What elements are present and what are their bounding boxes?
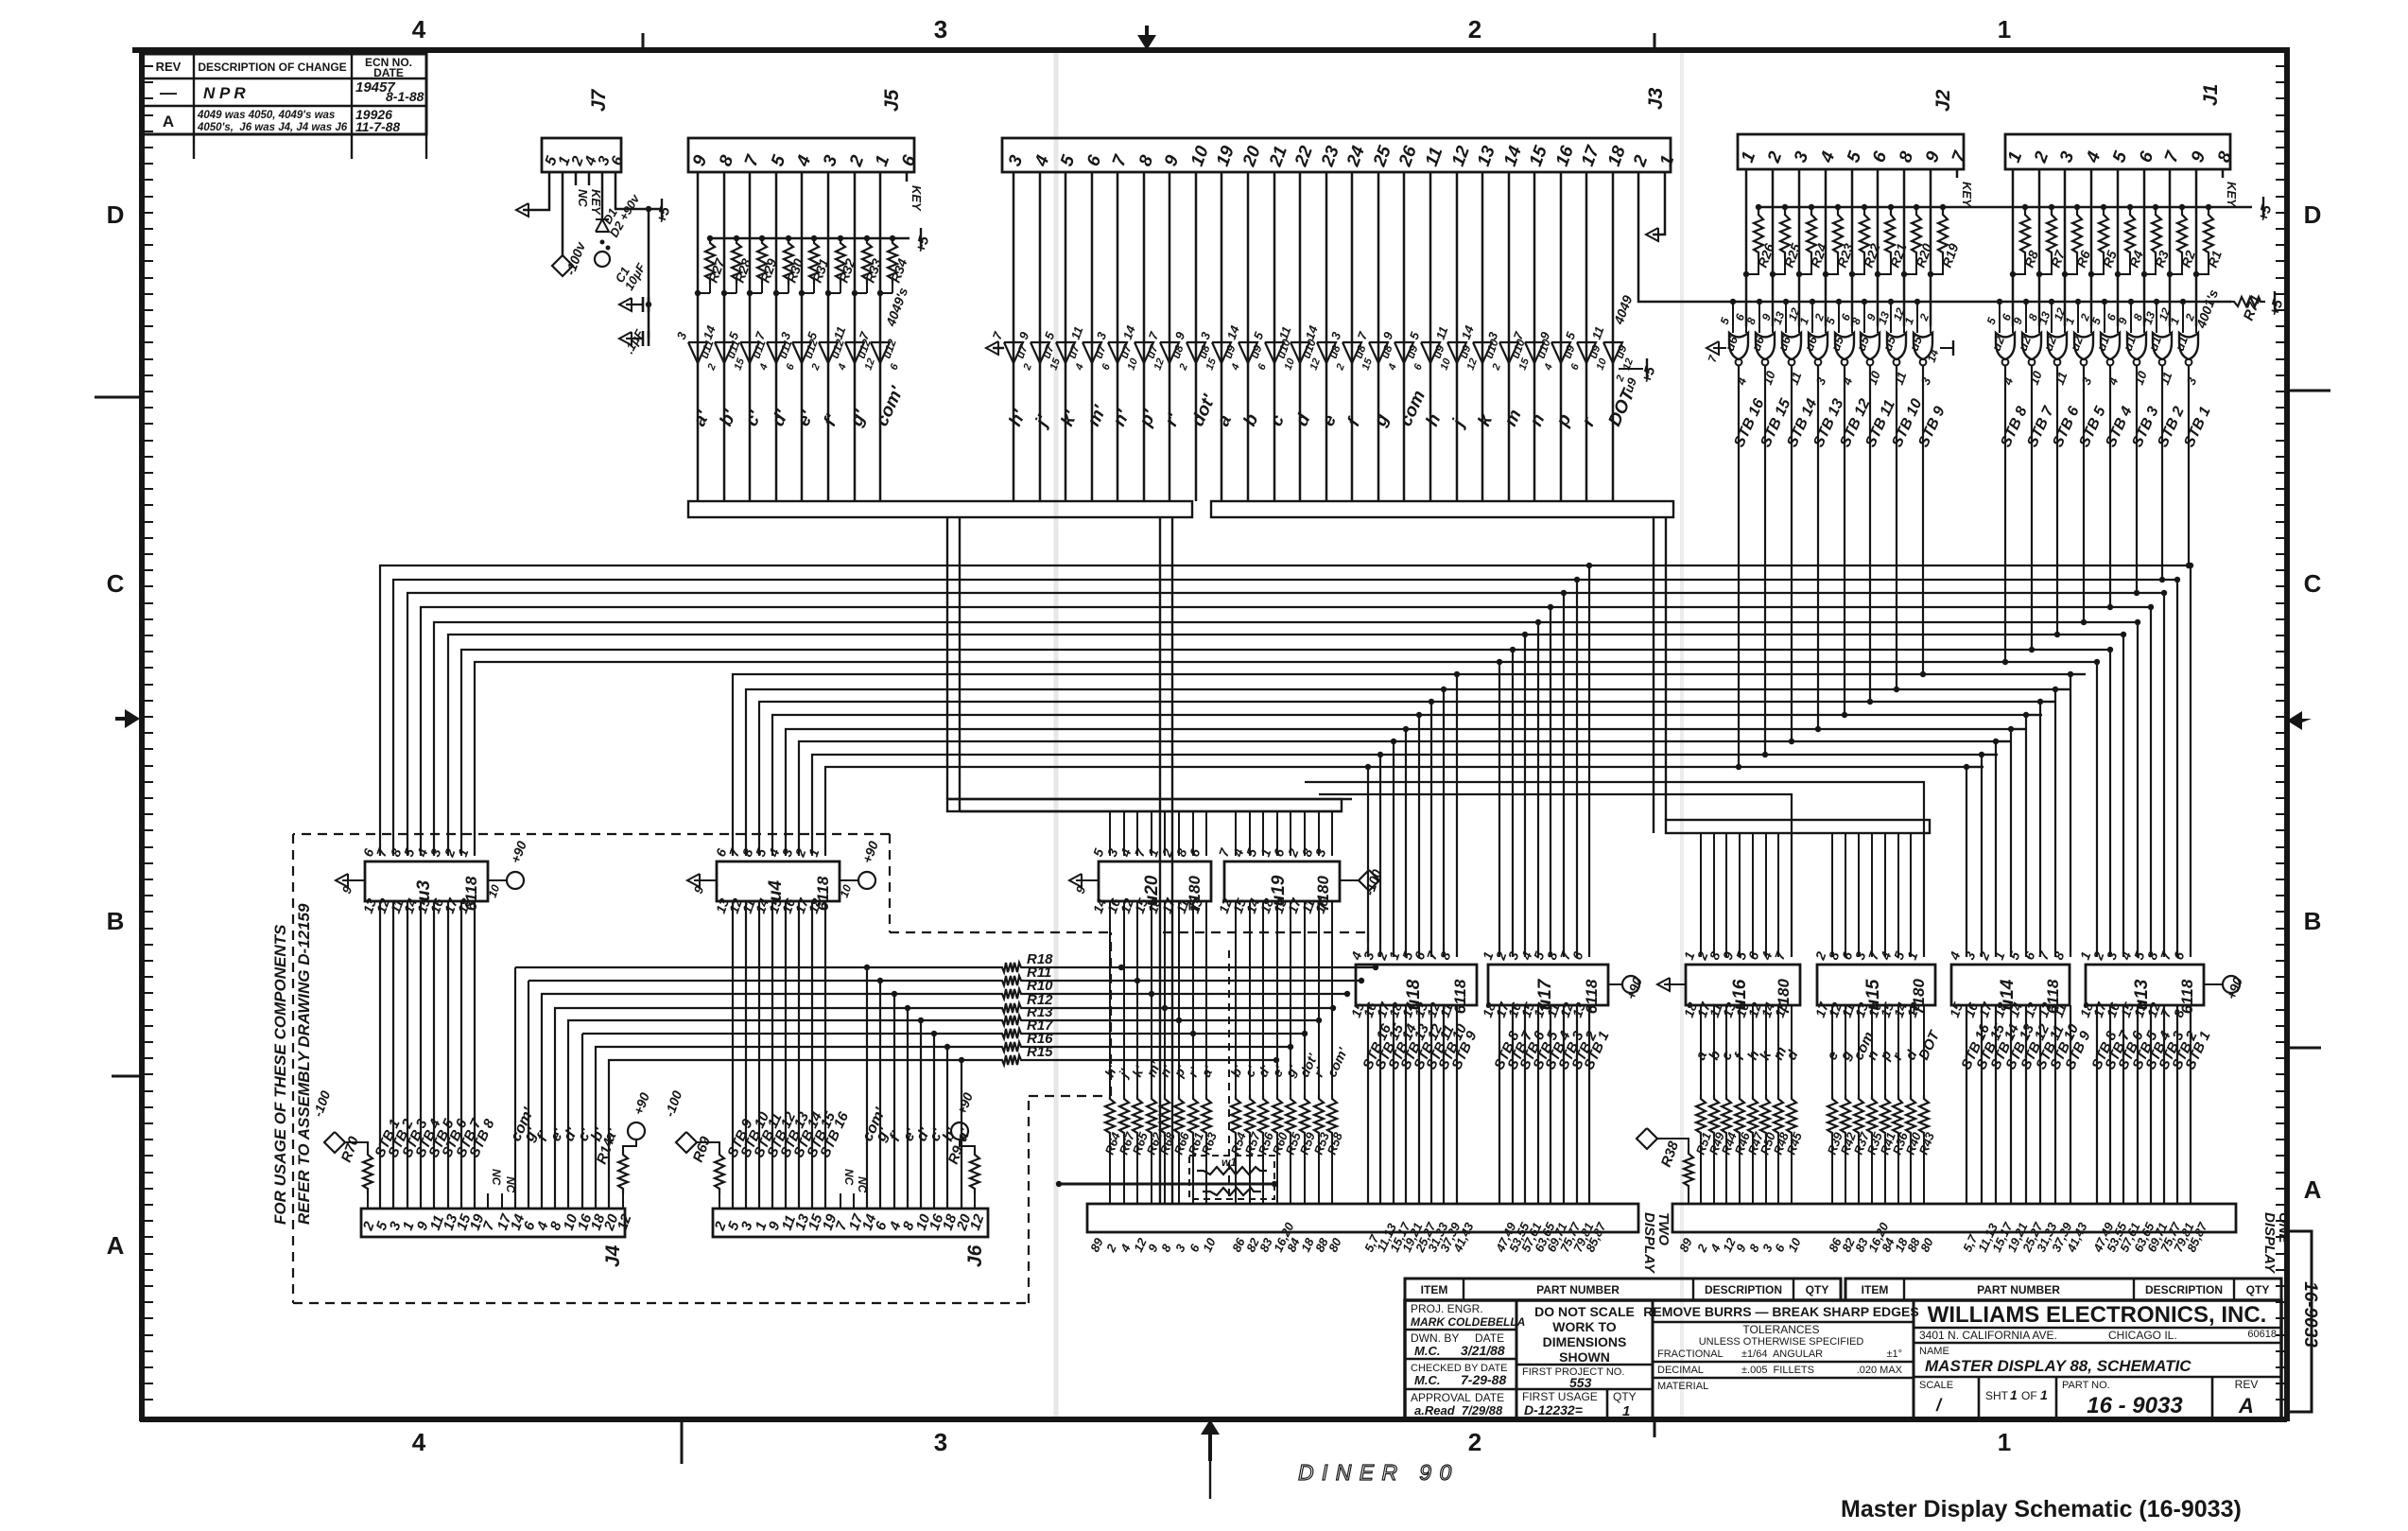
svg-text:16 - 9033: 16 - 9033 (2087, 1393, 2183, 1418)
svg-text:DESCRIPTION OF CHANGE: DESCRIPTION OF CHANGE (198, 61, 346, 74)
svg-text:1: 1 (2040, 1387, 2048, 1402)
svg-text:D: D (107, 200, 125, 229)
revision table (143, 54, 426, 134)
svg-text:C: C (107, 569, 125, 598)
svg-text:C: C (2304, 569, 2322, 598)
inverter gates U11/U12 (4049) (688, 342, 707, 363)
parts list header left (1405, 1279, 1841, 1300)
zone boundary arrow bottom 3/2 (1201, 1419, 1220, 1461)
svg-text:ITEM: ITEM (1421, 1283, 1448, 1296)
bus line 17 to U15 com (1305, 782, 1924, 957)
wires U17 to DISPLAY TWO (1499, 1005, 1500, 1204)
svg-text:1: 1 (1998, 1428, 2011, 1456)
bus line extensions right for U14 (2070, 673, 2086, 675)
junction dots U20/U19 wires on bus (1118, 965, 1124, 970)
svg-text:3: 3 (934, 15, 947, 43)
connector DISPLAY TWO (1087, 1204, 1638, 1232)
diode D1 (596, 218, 609, 220)
svg-text:NC: NC (576, 189, 590, 207)
svg-text:4: 4 (412, 1428, 426, 1456)
svg-text:1: 1 (2010, 1387, 2018, 1402)
svg-text:11-7-88: 11-7-88 (355, 119, 400, 134)
J4 NC pins (487, 1193, 489, 1209)
+5 rail for pullup resistors (1758, 206, 2252, 209)
svg-text:DESCRIPTION: DESCRIPTION (1705, 1283, 1782, 1296)
-100v diamond (552, 255, 573, 276)
resistor bank R64-R58 (1105, 1095, 1115, 1137)
svg-text:NC: NC (504, 1176, 517, 1193)
svg-text:J1: J1 (2200, 84, 2222, 106)
svg-text:DATE: DATE (373, 66, 404, 79)
svg-text:J5: J5 (881, 89, 903, 112)
svg-text:4049 was 4050, 4049's was: 4049 was 4050, 4049's was (197, 110, 335, 121)
wires J2 pins down (1745, 169, 1748, 326)
wires U14 to DISPLAY ONE (1966, 1005, 1967, 1204)
svg-text:PROJ. ENGR.: PROJ. ENGR. (1411, 1302, 1483, 1315)
resistors R26-R19 (1756, 204, 1761, 210)
svg-text:NC: NC (490, 1169, 503, 1186)
svg-text:DWN. BY: DWN. BY (1411, 1331, 1459, 1345)
svg-text:DISPLAY: DISPLAY (2261, 1212, 2278, 1275)
svg-text:DISPLAY: DISPLAY (1641, 1212, 1657, 1275)
zone boundary arrow left C/B (115, 709, 140, 728)
svg-text:±1°: ±1° (1886, 1348, 1902, 1360)
first usage row (1516, 1388, 1653, 1391)
svg-text:1: 1 (1622, 1403, 1630, 1419)
svg-text:REFER TO ASSEMBLY DRAWING D-12: REFER TO ASSEMBLY DRAWING D-12159 (295, 903, 313, 1225)
drawing frame border (132, 47, 2287, 53)
svg-text:4050's, J6 was J4, J4 was J6: 4050's, J6 was J4, J4 was J6 (197, 122, 348, 133)
connector J2 (1738, 134, 1964, 169)
wires U18 to DISPLAY TWO (1367, 1005, 1369, 1204)
stair-step wires down to U17 (1499, 662, 1500, 957)
ground arrow left of J3 gates (993, 347, 1004, 350)
svg-text:J7: J7 (588, 88, 610, 112)
connector DISPLAY ONE (1672, 1204, 2236, 1232)
svg-text:SHOWN: SHOWN (1559, 1349, 1610, 1365)
U19 -100 (1340, 879, 1359, 881)
dashed dot-prime wire (1228, 950, 1230, 1201)
jumper W1 dashed box (1189, 1156, 1274, 1199)
svg-text:6118: 6118 (2178, 979, 2196, 1014)
resistor R71 (2229, 297, 2265, 306)
wire J7 pin6 to +5 rail (615, 172, 662, 209)
svg-text:3401 N. CALIFORNIA AVE.: 3401 N. CALIFORNIA AVE. (1919, 1329, 2057, 1342)
zone boundary mark left B/A (112, 1075, 140, 1078)
svg-text:SCALE: SCALE (1919, 1380, 1953, 1391)
svg-text:CHICAGO IL.: CHICAGO IL. (2108, 1329, 2177, 1342)
svg-text:±1/64 ANGULAR: ±1/64 ANGULAR (1741, 1348, 1823, 1360)
wire J3 pin2 to +5 rail (1638, 172, 1654, 302)
svg-text:PART NO.: PART NO. (2062, 1380, 2110, 1391)
svg-text:A: A (163, 113, 174, 130)
svg-text:.020 MAX: .020 MAX (1857, 1365, 1903, 1376)
NOR gates U2/U1 (4001) (1997, 299, 2002, 304)
svg-text:M.C.: M.C. (1414, 1373, 1440, 1387)
svg-text:DIMENSIONS: DIMENSIONS (1543, 1334, 1627, 1349)
svg-text:N P R: N P R (203, 84, 246, 102)
+5 rail J5 resistors (710, 237, 895, 240)
svg-text:ONE: ONE (2276, 1212, 2292, 1244)
wire +5 rail down to caps (648, 209, 650, 339)
IC U16 7180 driver (1686, 965, 1800, 1005)
svg-text:DECIMAL: DECIMAL (1657, 1365, 1704, 1376)
svg-text:ITEM: ITEM (1862, 1283, 1889, 1296)
connector J7 (542, 138, 621, 172)
zone boundary mark bottom 4/3 (681, 1419, 684, 1464)
svg-text:DO NOT SCALE: DO NOT SCALE (1534, 1304, 1635, 1319)
svg-text:KEY: KEY (1960, 182, 1974, 208)
svg-text:A: A (2304, 1175, 2322, 1204)
+5 rail 2 from J3 pin 2 (1654, 301, 2231, 304)
svg-text:J4: J4 (602, 1244, 624, 1267)
zone boundary arrow right C/B (2287, 711, 2312, 730)
IC U3 6118 driver (365, 861, 488, 901)
+5 symbol J7 (661, 199, 663, 219)
zone boundary mark top 4/3 (642, 33, 645, 50)
svg-text:8-1-88: 8-1-88 (386, 89, 424, 104)
bus band stair-step wires to U3 (380, 565, 1594, 856)
wires U15 to DISPLAY ONE resistors (1831, 1005, 1833, 1095)
NOR gates U6/U5 (4001) (1730, 299, 1736, 304)
svg-text:QTY: QTY (1806, 1283, 1829, 1296)
wires U4 to J6 (STB9-16) (732, 901, 734, 1209)
svg-text:4: 4 (412, 15, 426, 43)
bar B com pair down to display (1159, 517, 1161, 1204)
svg-text:16-9033: 16-9033 (2300, 1281, 2320, 1348)
svg-text:J3: J3 (1645, 87, 1667, 110)
svg-text:—: — (160, 83, 177, 102)
U17 +90 (1608, 983, 1622, 985)
connector J3 (1002, 138, 1671, 172)
wire J7 pin1 to -100v (562, 172, 564, 255)
dashed outline right section (1163, 931, 1368, 933)
zone boundary arrow top 3/2 (1137, 26, 1156, 50)
svg-text:D I N E R 9 0: D I N E R 9 0 (1298, 1460, 1452, 1485)
U3 pin9 arrow (342, 879, 365, 881)
svg-text:UNLESS OTHERWISE SPECIFIED: UNLESS OTHERWISE SPECIFIED (1699, 1336, 1864, 1348)
IC U15 7180 driver (1817, 965, 1935, 1005)
U16 pin9 arrow (1664, 983, 1686, 985)
title block do-not-scale column (1652, 1300, 1654, 1419)
dashed assembly outline (293, 833, 890, 835)
IC U18 6118 driver (1356, 965, 1477, 1005)
zone boundary mark right B/A (2287, 1047, 2321, 1050)
svg-text:DESCRIPTION: DESCRIPTION (2145, 1283, 2223, 1296)
svg-text:PART NUMBER: PART NUMBER (1977, 1283, 2060, 1296)
svg-text:D-12232=: D-12232= (1524, 1402, 1583, 1418)
svg-text:7-29-88: 7-29-88 (1461, 1372, 1506, 1387)
svg-text:SHT: SHT (1985, 1389, 2009, 1402)
bus line extensions right for U13 (1594, 565, 2191, 566)
svg-text:3: 3 (934, 1428, 947, 1456)
wires bar C to U20 (1109, 811, 1111, 856)
border tick marks left (144, 65, 153, 67)
wires bar D to U15 (1831, 833, 1833, 957)
svg-text:OF: OF (2021, 1389, 2037, 1402)
zone boundary mark top 2/1 (1654, 33, 1656, 50)
bus bar B for segment signals (1211, 501, 1673, 517)
wires J1 pins down (2012, 169, 2015, 326)
+5 at U9 gate (1619, 368, 1643, 370)
zone boundary mark left D/C (95, 396, 140, 399)
svg-text:MARK COLDEBELLA: MARK COLDEBELLA (1411, 1315, 1525, 1329)
bar B output pair down (1653, 517, 1654, 833)
zone boundary mark right D/C (2287, 390, 2330, 392)
svg-text:553: 553 (1569, 1375, 1592, 1390)
svg-text:TWO: TWO (1655, 1212, 1672, 1245)
IC U13 6118 driver (2086, 965, 2204, 1005)
svg-text:KEY: KEY (909, 185, 924, 212)
wires U13 to DISPLAY ONE (2096, 1005, 2098, 1204)
gnd bar at U5 pin 14 (1940, 347, 1953, 349)
border tick marks right (2276, 65, 2285, 67)
resistor R9 with +90 (951, 1122, 968, 1140)
wires down to U14 (1966, 767, 1967, 957)
STB wires from U2/U1 gates into bus (2004, 407, 2006, 662)
svg-text:REV: REV (2235, 1378, 2259, 1391)
wire J3 pin1 to arrow (1653, 172, 1665, 235)
svg-text:D: D (2304, 200, 2322, 229)
U20 pin9 arrow (1076, 879, 1099, 881)
svg-text:WORK TO: WORK TO (1552, 1319, 1617, 1334)
svg-text:FOR USAGE OF THESE COMPONENTS: FOR USAGE OF THESE COMPONENTS (271, 924, 289, 1225)
svg-text:B: B (107, 907, 125, 935)
feed bus bar D for U16/U15 (1666, 820, 1930, 833)
neon D2 (600, 240, 605, 245)
STB wires from U6/U5 gates into bus (1738, 407, 1740, 767)
svg-text:TOLERANCES: TOLERANCES (1742, 1323, 1819, 1336)
svg-text:A: A (2238, 1394, 2254, 1418)
svg-text:PART NUMBER: PART NUMBER (1536, 1283, 1620, 1296)
bus lines 17-18 com distribution (960, 810, 1342, 812)
wires J5 pins down (697, 172, 700, 501)
svg-text:3/21/88: 3/21/88 (1461, 1343, 1505, 1358)
paper fold artifacts (1054, 53, 1059, 1417)
IC U20 7180 driver (1099, 861, 1211, 901)
part number strip vertical (2287, 1231, 2312, 1412)
svg-text:1: 1 (1998, 15, 2011, 43)
svg-text:WILLIAMS ELECTRONICS, INC.: WILLIAMS ELECTRONICS, INC. (1928, 1302, 2267, 1328)
capacitor .1uF (626, 338, 643, 339)
tolerance box (1913, 1300, 1915, 1419)
wires J4 signals up to bus (514, 967, 516, 1209)
jumper W1 (1197, 1167, 1267, 1174)
stair-step wires down to U18 (1367, 767, 1369, 957)
U3 +90 (488, 879, 507, 881)
svg-text:R15: R15 (1027, 1044, 1053, 1060)
wires U16 to DISPLAY ONE resistors (1700, 1005, 1702, 1095)
wires U3 to J4 (STB1-8) (379, 901, 381, 1209)
inverter gates U7-U10 (4049) (1004, 342, 1023, 363)
title block engineer column (1516, 1300, 1518, 1419)
IC U4 6118 driver (717, 861, 840, 901)
svg-text:MASTER DISPLAY 88, SCHEMATIC: MASTER DISPLAY 88, SCHEMATIC (1925, 1357, 2191, 1375)
svg-text:APPROVAL: APPROVAL (1411, 1391, 1471, 1404)
svg-text:QTY: QTY (1613, 1390, 1637, 1403)
svg-text:M.C.: M.C. (1414, 1344, 1440, 1358)
svg-text:NC: NC (842, 1169, 856, 1186)
bus band stair-step wires to U4 (733, 674, 2086, 856)
svg-text:DATE: DATE (1475, 1391, 1504, 1404)
capacitor C1 10uF (626, 304, 643, 305)
parts list header right (1845, 1279, 2281, 1300)
title block outline (1405, 1300, 2281, 1419)
svg-text:w1: w1 (1221, 1156, 1237, 1169)
svg-text:MATERIAL: MATERIAL (1657, 1381, 1708, 1392)
wires down to U13 (2096, 662, 2098, 957)
segment resistor bus lines R18-R15 (515, 966, 999, 968)
U13 +90 (2204, 983, 2223, 985)
svg-text:REV: REV (156, 60, 182, 74)
svg-text:B: B (2304, 907, 2322, 935)
svg-text:±.005 FILLETS: ±.005 FILLETS (1741, 1365, 1814, 1376)
svg-text:60618: 60618 (2247, 1329, 2277, 1340)
svg-text:2: 2 (1468, 1428, 1481, 1456)
svg-text:J6: J6 (964, 1244, 986, 1267)
svg-text:2: 2 (1468, 15, 1481, 43)
svg-text:FIRST USAGE: FIRST USAGE (1522, 1390, 1598, 1403)
W1 bold wire (1059, 1183, 1274, 1186)
wire J7 pin5 to arrow (523, 172, 549, 210)
connector J4 (361, 1209, 625, 1237)
wires bar D to U16 (1700, 833, 1702, 957)
wire J7 pin3 (601, 172, 604, 219)
bus bar A for primed segment signals (688, 501, 1192, 517)
wires J6 signals up to bus (866, 967, 868, 1209)
svg-text:Master Display Schematic (16-9: Master Display Schematic (16-9033) (1841, 1496, 2242, 1522)
svg-text:FRACTIONAL: FRACTIONAL (1657, 1348, 1724, 1360)
IC U14 6118 driver (1951, 965, 2070, 1005)
resistor R14 with +90 (628, 1122, 645, 1140)
resistor R38 with -100 (1637, 1128, 1657, 1149)
resistor R69 with -100 (676, 1132, 697, 1153)
J6 NC pins (840, 1193, 841, 1209)
connector J5 (688, 138, 914, 172)
connector J6 (713, 1209, 988, 1237)
label NC J7 pin2 (575, 172, 578, 185)
wires J3 pins down (1013, 172, 1015, 501)
svg-text:QTY: QTY (2246, 1283, 2270, 1296)
label KEY J7 pin4 (588, 172, 591, 185)
svg-text:NC: NC (856, 1176, 869, 1193)
bus line 18 to U16 com (1319, 794, 1792, 957)
zone boundary mark bottom 2/1 (1654, 1419, 1656, 1437)
svg-text:REMOVE BURRS — BREAK SHARP EDG: REMOVE BURRS — BREAK SHARP EDGES (1643, 1304, 1918, 1319)
svg-text:J2: J2 (1932, 89, 1954, 112)
resistors R8-R1 (2022, 204, 2028, 210)
IC U17 6118 driver (1488, 965, 1608, 1005)
IC U19 7180 driver (1224, 861, 1340, 901)
svg-text:A: A (107, 1231, 125, 1260)
svg-text:NAME: NAME (1919, 1346, 1949, 1357)
wires bar C to U19 (1235, 811, 1237, 856)
wires U20/U19 to resistors (1109, 901, 1111, 1095)
bar A output pair down (946, 517, 948, 799)
feed bus bar C for U20/U19 (947, 799, 1342, 811)
svg-text:KEY: KEY (2225, 182, 2239, 208)
svg-text:a.Read 7/29/88: a.Read 7/29/88 (1414, 1403, 1503, 1418)
connector J1 (2005, 134, 2230, 169)
resistor R70 with -100 (324, 1132, 345, 1153)
resistors R27-R34 (707, 235, 713, 241)
ground arrow left of U6 (1713, 347, 1726, 349)
U4 +90 (840, 879, 858, 881)
U4 pin9 arrow (694, 879, 717, 881)
